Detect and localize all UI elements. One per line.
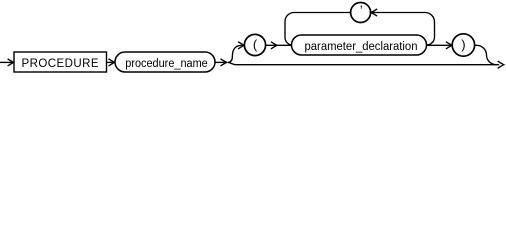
svg-text:PROCEDURE: PROCEDURE [22,58,99,70]
svg-text:): ) [461,37,465,52]
svg-text:procedure_name: procedure_name [125,58,208,70]
svg-text:,: , [360,0,363,10]
svg-text:parameter_declaration: parameter_declaration [305,41,418,53]
svg-text:(: ( [253,37,258,52]
